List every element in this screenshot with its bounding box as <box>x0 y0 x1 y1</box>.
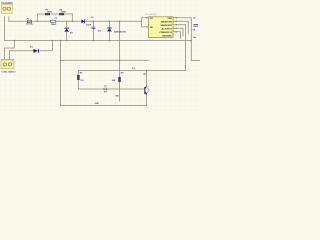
diode D4 series <box>81 19 85 23</box>
wire horizontal y=60.3 <box>61 59 149 61</box>
wire mid rail C1 to D4 <box>56 20 82 22</box>
wire D1 anode side <box>10 50 34 52</box>
wire column x=78.4 down to base line <box>77 71 79 89</box>
svg-text:C3: C3 <box>104 86 106 88</box>
wire IC right pin4 stub down <box>173 28 183 36</box>
wire y=70.6 load line <box>78 70 185 72</box>
wire base line y=89 right <box>107 88 145 90</box>
svg-text:BZX84C5V1: BZX84C5V1 <box>114 31 127 34</box>
svg-text:AC/GPIO1: AC/GPIO1 <box>162 27 173 30</box>
sheet background <box>0 0 200 115</box>
wire D1 cathode to corner up to rail <box>39 41 53 51</box>
wire Q1 collector <box>146 71 148 87</box>
resistor R1 <box>45 13 50 15</box>
svg-text:100nF: 100nF <box>51 24 57 26</box>
wire IC left pin hooks <box>142 18 149 27</box>
wire top rail down to mid rail <box>71 14 73 21</box>
svg-text:RESET/PB: RESET/PB <box>161 21 172 23</box>
wire C2 branch <box>92 21 94 40</box>
resistor R2 <box>59 13 64 15</box>
svg-text:C1: C1 <box>55 18 57 20</box>
wire bottom rail y=105.5 <box>61 105 147 107</box>
svg-text:SENSE/INT: SENSE/INT <box>160 25 172 27</box>
svg-text:CON2_WAGO: CON2_WAGO <box>1 70 16 73</box>
resistor R4 vertical <box>119 77 121 82</box>
capacitor C2 <box>92 27 96 28</box>
wire fuse to node A <box>32 20 51 22</box>
zener D2 <box>64 28 69 32</box>
svg-text:VDD: VDD <box>167 18 172 20</box>
capacitor C1 <box>50 20 56 22</box>
svg-text:10uF: 10uF <box>86 25 92 27</box>
zener D3 <box>107 28 112 32</box>
svg-text:GND/SRC: GND/SRC <box>162 36 173 38</box>
wire mid rail P1 to fuse <box>9 20 27 22</box>
wire mid rail D4 to IC <box>85 20 142 22</box>
svg-text:10K: 10K <box>112 80 116 82</box>
wire V1 x=60.6 rail down to bottom rail <box>60 41 62 106</box>
wire Q1 emitter <box>146 94 148 106</box>
connector P2 <box>1 60 14 69</box>
svg-text:GND: GND <box>95 103 100 105</box>
capacitor C4 right edge <box>194 25 199 27</box>
wire node A up to top rail <box>36 14 38 21</box>
wire base line y=89 left <box>78 88 104 90</box>
svg-text:U1 LNK304: U1 LNK304 <box>146 14 158 16</box>
resistor R5 vertical <box>77 75 79 80</box>
svg-text:470K: 470K <box>47 10 52 13</box>
capacitor C3 on base line <box>104 88 107 90</box>
wire IC right pin5 stub down <box>173 32 180 39</box>
svg-text:100mA: 100mA <box>26 23 33 26</box>
wire common rail y=40.5 <box>5 40 192 42</box>
transistor Q1 <box>145 86 149 95</box>
pin tick marks <box>147 17 176 33</box>
svg-text:PWM/GPIO2: PWM/GPIO2 <box>159 32 172 34</box>
wire P2 right pin up <box>9 51 11 60</box>
wire IC right pin3 to load line <box>173 25 186 71</box>
wire zener D3 branch <box>108 21 110 40</box>
svg-text:P1 AC230V: P1 AC230V <box>1 1 13 4</box>
wire IC right pin1 to rail and exit <box>173 18 200 61</box>
diode D1 <box>34 49 39 53</box>
svg-text:FB: FB <box>150 27 153 29</box>
wire top rail between R1 R2 <box>51 13 59 15</box>
wire P1 pin2 down <box>8 17 10 22</box>
svg-text:470K: 470K <box>61 10 66 13</box>
fuse F1 <box>27 20 31 23</box>
IC U1 <box>149 17 174 38</box>
connector P1 <box>2 4 13 14</box>
wire top rail right segment <box>65 13 73 15</box>
IC pin name texts <box>150 18 173 38</box>
wire IC right pin2 stub down <box>173 21 188 33</box>
wire top rail left segment <box>37 13 45 15</box>
svg-text:VD: VD <box>150 18 153 20</box>
wire P1 pin1 down to common rail <box>4 17 6 41</box>
wire zener D2 branch <box>66 21 68 40</box>
wire P2 left pin jog to rail <box>5 41 15 60</box>
junction dots <box>14 21 193 72</box>
wire column x=119.5 from mid rail down <box>119 21 121 101</box>
svg-text:10K: 10K <box>80 80 84 82</box>
